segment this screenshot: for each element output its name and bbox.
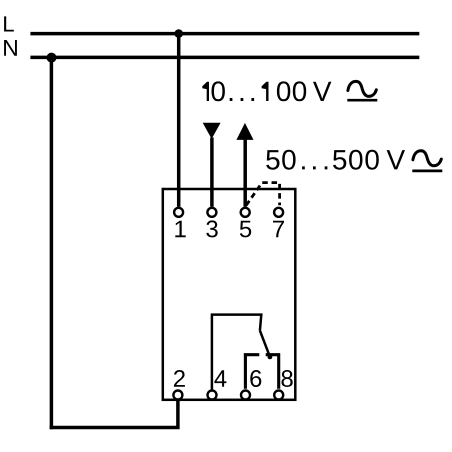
terminal 2 (173, 391, 182, 400)
terminal 1 (174, 208, 183, 217)
relay moving contact blob (268, 355, 273, 360)
pin number 6 (250, 370, 261, 387)
pin number 5 (240, 221, 251, 238)
AC symbol for 10...100 V (347, 81, 377, 100)
net label L (4, 16, 14, 31)
net label N (4, 40, 17, 56)
junction node on N bus (47, 53, 57, 63)
terminal 4 (208, 391, 217, 400)
label 50...500 V (266, 150, 405, 170)
AC symbol for 50...500 V (412, 151, 442, 171)
pin number 8 (282, 370, 293, 387)
wire from L bus to terminal 1 (177, 34, 181, 207)
pin number 1 (175, 221, 185, 238)
arrow up out of terminal 5 (236, 123, 253, 140)
terminal 7 (274, 208, 283, 217)
pin number 2 (174, 370, 185, 387)
terminal 3 (207, 208, 216, 217)
pin number 3 (206, 220, 217, 237)
relay common wire from terminal 4 (212, 315, 261, 390)
terminal 5 (241, 208, 250, 217)
device box outline (163, 189, 295, 400)
wire from N bus down left side (50, 57, 54, 429)
terminal 8 (274, 391, 283, 400)
pin number 7 (273, 221, 284, 238)
relay fixed contact of terminal 8 (266, 353, 280, 389)
junction node on L bus (174, 29, 183, 38)
label 10...100 V (202, 81, 331, 101)
arrow down into terminal 3 (203, 123, 221, 139)
wire stem into terminal 3 (210, 138, 214, 207)
terminal 6 (241, 391, 250, 400)
wire N bus (30, 56, 419, 60)
wire stem into terminal 5 (243, 139, 247, 207)
wire bottom run to terminal 2 (50, 400, 178, 428)
dashed measuring link from terminals 5 and 7 (246, 183, 279, 206)
relay fixed contact of terminal 6 (244, 353, 259, 389)
relay moving contact lever (260, 331, 271, 359)
pin number 4 (214, 370, 226, 387)
wire L bus (30, 32, 419, 36)
